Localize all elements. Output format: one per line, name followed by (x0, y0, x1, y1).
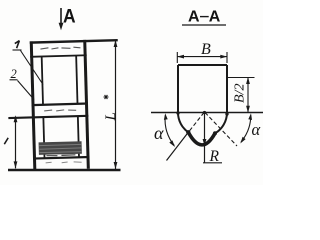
section profile: left vertical side (177, 65, 179, 113)
dimension L*: dimension line (115, 41, 117, 169)
dashed radius line to left tangent point (188, 113, 204, 133)
underline of label 2 (10, 79, 18, 81)
dimension L* label asterisk (104, 95, 109, 99)
texture in top band (40, 47, 80, 49)
dimension B/2: top arrow (246, 77, 250, 84)
underline of A-A (182, 24, 226, 26)
section profile: bottom arc radius R (thick) (188, 132, 215, 145)
R label underline (203, 162, 222, 164)
svg-text:B/2: B/2 (233, 84, 248, 103)
svg-text:α: α (252, 120, 261, 139)
svg-text:α: α (154, 123, 164, 143)
middle band top line (32, 104, 88, 106)
dimension B: left arrow (177, 55, 184, 59)
dimension L*: bottom arrow (114, 162, 118, 169)
junction dot right vertical/centerline (225, 112, 228, 115)
dimension l: top arrow (14, 115, 18, 122)
tangent point dot left (186, 130, 190, 134)
svg-text:R: R (209, 148, 220, 165)
bottom band top line (33, 157, 89, 159)
section title A-A: dash (200, 16, 209, 18)
top edge line (extends right as extension line for L*) (30, 40, 118, 42)
left view: part outline group (slightly rotated like the scan) (6, 39, 121, 171)
dimension B/2: dimension line (247, 78, 249, 113)
dimension l label (rotated italic l) (4, 138, 8, 144)
section profile: right vertical side (226, 65, 228, 113)
section profile: right lower arc (radius B/2) (215, 113, 227, 134)
dimension B/2: bottom arrow (246, 106, 250, 113)
solid tangent extension lower-left (167, 132, 189, 160)
svg-text:A: A (188, 9, 200, 26)
texture in bottom band (46, 161, 82, 163)
dimension B/2: top extension line (227, 77, 255, 79)
texture strip above bottom band (39, 141, 82, 155)
right inner rail line (76, 56, 77, 104)
radius R arrow (points down onto arc) (203, 139, 207, 146)
section profile: left lower arc (radius B/2) (178, 113, 188, 133)
label 1 (position number) (15, 41, 20, 49)
tangent point dot right (213, 131, 217, 135)
horizontal centerline through section (151, 112, 263, 114)
section profile: top edge (178, 64, 227, 66)
right outer rail (85, 40, 89, 169)
underline of label 1 (13, 49, 22, 51)
dimension B: dimension line (178, 56, 228, 58)
dimension l: bottom arrow (14, 161, 18, 168)
svg-text:2: 2 (11, 67, 17, 81)
svg-text:A: A (209, 9, 221, 26)
leader line of label 2 (18, 81, 35, 100)
svg-text:B: B (201, 41, 211, 58)
left outer rail (31, 41, 35, 170)
leader line of label 1 (21, 51, 44, 85)
radius R leader vertical line (204, 113, 206, 163)
left inner rail line (42, 56, 43, 104)
junction dot at center M (203, 111, 206, 114)
dashed radius line to lower right (205, 113, 237, 147)
texture in middle band (44, 109, 76, 111)
right angle alpha arc with arrows (241, 116, 251, 143)
top band bottom line (30, 55, 86, 57)
dimension l: dimension line (15, 117, 17, 169)
dimension L*: top arrow (114, 40, 118, 47)
bottom extension line (common for l and L*) (8, 169, 121, 171)
dimension B: extension lines (177, 52, 227, 63)
dimension B: right arrow (220, 55, 227, 59)
svg-text:A: A (63, 5, 76, 27)
junction dot left vertical/centerline (176, 111, 179, 114)
section arrow A (cutting plane arrow) (59, 8, 64, 30)
left angle alpha arc with arrows (165, 116, 174, 146)
middle band bottom line (extends left as extension line for l) (8, 116, 88, 118)
svg-text:L: L (103, 112, 119, 121)
